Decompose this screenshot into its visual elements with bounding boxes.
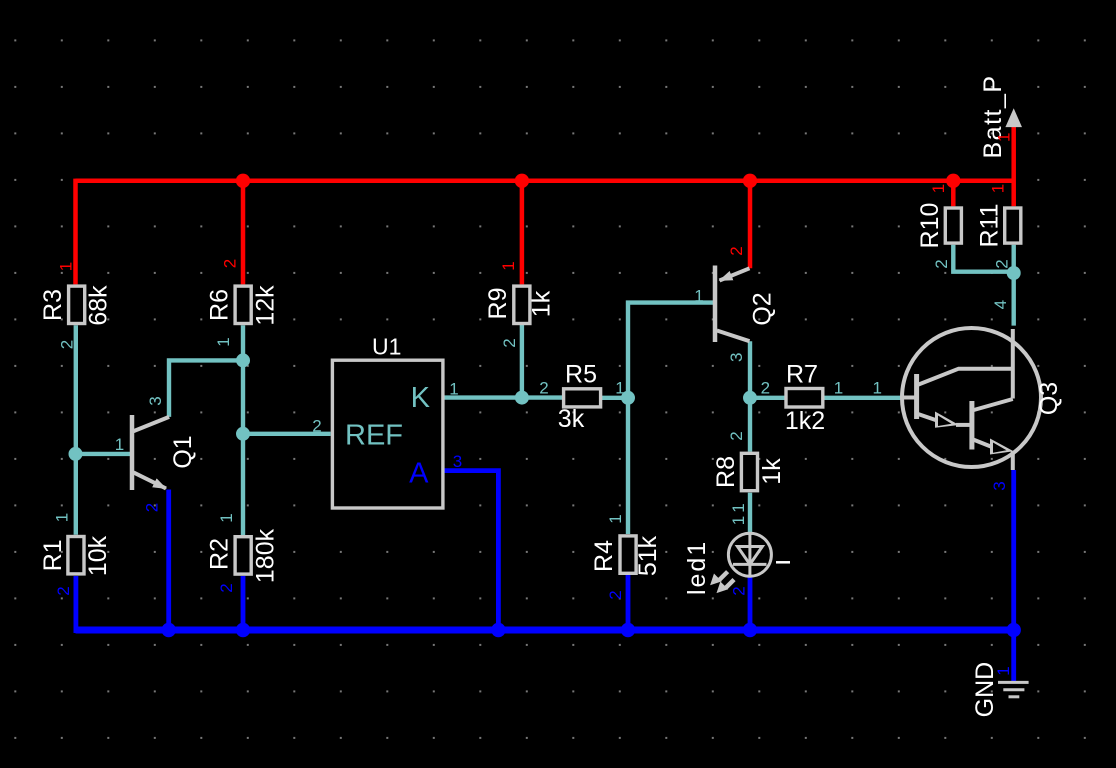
resistor R9 bbox=[484, 261, 556, 347]
op-amp U1 (REF shunt regulator) bbox=[312, 334, 462, 508]
resistor R8 bbox=[712, 431, 786, 512]
node teal R6-Q1 collector bbox=[236, 353, 250, 367]
svg-text:3: 3 bbox=[727, 353, 746, 362]
svg-text:R4: R4 bbox=[590, 540, 618, 572]
svg-text:2: 2 bbox=[727, 246, 746, 255]
svg-text:1: 1 bbox=[606, 514, 625, 523]
resistor R5 bbox=[539, 361, 624, 433]
svg-text:1: 1 bbox=[872, 379, 881, 398]
wire teal R8 to led1 bbox=[748, 493, 752, 535]
ground GND bbox=[971, 662, 1029, 718]
svg-text:Q3: Q3 bbox=[1035, 382, 1063, 415]
svg-text:1: 1 bbox=[694, 287, 703, 306]
transistor Q2 bbox=[694, 246, 776, 362]
node blue GND bbox=[1007, 623, 1021, 637]
svg-text:Q1: Q1 bbox=[169, 435, 197, 468]
wire teal R9 down bbox=[520, 324, 524, 398]
svg-text:1: 1 bbox=[217, 513, 236, 522]
resistor R10 bbox=[916, 184, 961, 269]
svg-text:2: 2 bbox=[993, 259, 1012, 268]
svg-text:2: 2 bbox=[220, 259, 239, 268]
wire teal K pin to R5 bbox=[444, 395, 563, 399]
svg-text:12k: 12k bbox=[251, 285, 279, 326]
svg-text:A: A bbox=[409, 457, 429, 489]
svg-text:Q2: Q2 bbox=[749, 292, 777, 325]
svg-text:1: 1 bbox=[834, 379, 843, 398]
svg-text:R8: R8 bbox=[712, 456, 740, 488]
svg-text:1k: 1k bbox=[528, 290, 556, 317]
svg-text:1: 1 bbox=[929, 184, 948, 193]
node red rail-R9 bbox=[515, 174, 529, 188]
wire teal R7 to Q3 base bbox=[824, 396, 903, 400]
node red rail-R10 bbox=[946, 174, 960, 188]
wire blue R1 bottom bbox=[74, 576, 79, 633]
svg-text:4: 4 bbox=[991, 300, 1010, 309]
svg-text:2: 2 bbox=[727, 431, 746, 440]
resistor R11 bbox=[975, 184, 1021, 269]
svg-text:1: 1 bbox=[115, 435, 124, 454]
svg-text:R2: R2 bbox=[205, 538, 233, 570]
wire teal R11 bottom to Q3 collector bbox=[1012, 245, 1016, 326]
svg-text:3: 3 bbox=[990, 481, 1009, 490]
resistor R6 bbox=[205, 259, 279, 347]
wire teal node to R7 bbox=[750, 396, 785, 400]
svg-text:K: K bbox=[411, 382, 431, 414]
svg-text:1: 1 bbox=[615, 379, 624, 398]
svg-text:1: 1 bbox=[57, 262, 76, 271]
wire blue A pin bbox=[444, 471, 498, 630]
wire red rail to R10 bbox=[951, 181, 956, 207]
wire blue Q1 emitter bbox=[166, 490, 171, 631]
wire teal Q2 base riser bbox=[628, 303, 713, 534]
svg-text:R3: R3 bbox=[39, 289, 67, 321]
wire red power rail bbox=[76, 179, 1014, 184]
resistor R2 bbox=[205, 513, 279, 592]
svg-text:1: 1 bbox=[449, 380, 458, 399]
wire red rail to R6 bbox=[241, 181, 246, 285]
wire teal node to REF pin 2 bbox=[243, 432, 331, 436]
svg-text:R7: R7 bbox=[786, 361, 818, 389]
resistor R3 bbox=[39, 262, 113, 349]
node red rail-R6 bbox=[236, 174, 250, 188]
svg-text:2: 2 bbox=[539, 379, 548, 398]
node teal R2-REF bbox=[236, 427, 250, 441]
node blue R2 bbox=[236, 623, 250, 637]
wire teal Q1 base bbox=[76, 452, 131, 456]
svg-text:1: 1 bbox=[988, 184, 1007, 193]
svg-text:2: 2 bbox=[142, 503, 161, 512]
svg-text:1: 1 bbox=[994, 666, 1013, 675]
wire blue R2 bottom bbox=[241, 576, 246, 630]
svg-text:1: 1 bbox=[729, 503, 748, 512]
svg-text:Batt_P: Batt_P bbox=[979, 74, 1007, 158]
wire red rail to R9 bbox=[520, 181, 525, 285]
node blue Q1 bbox=[162, 623, 176, 637]
svg-text:1k2: 1k2 bbox=[785, 407, 825, 435]
svg-text:R10: R10 bbox=[916, 203, 944, 249]
svg-text:U1: U1 bbox=[372, 334, 401, 360]
wire teal R6 column down to R2 bbox=[241, 325, 245, 535]
wire teal Q2 collector to R8 bbox=[748, 341, 752, 451]
svg-text:1: 1 bbox=[214, 337, 233, 346]
svg-text:R11: R11 bbox=[975, 203, 1003, 247]
svg-text:3: 3 bbox=[453, 452, 462, 471]
svg-text:2: 2 bbox=[312, 417, 321, 436]
svg-text:1: 1 bbox=[729, 516, 748, 525]
wire teal left column R3-R1 bbox=[74, 325, 78, 535]
svg-text:2: 2 bbox=[57, 340, 76, 349]
wire blue Q3 emitter to GND bbox=[1011, 470, 1016, 682]
svg-text:2: 2 bbox=[500, 338, 519, 347]
svg-text:1k: 1k bbox=[758, 458, 786, 485]
svg-text:2: 2 bbox=[54, 586, 73, 595]
svg-text:10k: 10k bbox=[84, 535, 112, 576]
wire blue ground rail bbox=[76, 627, 1014, 634]
node blue led1 bbox=[743, 623, 757, 637]
node teal R5-R4-Q2base bbox=[621, 391, 635, 405]
LED led1 bbox=[683, 516, 790, 597]
node red rail-Q2 bbox=[743, 174, 757, 188]
resistor R7 bbox=[761, 361, 844, 435]
svg-text:51k: 51k bbox=[634, 535, 662, 576]
wire blue R4 bottom bbox=[626, 575, 631, 630]
wire red rail to Q2 emitter bbox=[748, 181, 753, 268]
port Batt_P bbox=[979, 74, 1022, 158]
wire blue led1 bottom bbox=[748, 576, 753, 630]
wire red rail to R3 bbox=[73, 179, 78, 285]
node teal Q2-R7-R8 bbox=[743, 391, 757, 405]
svg-text:2: 2 bbox=[729, 586, 748, 595]
svg-text:R1: R1 bbox=[39, 539, 67, 571]
node teal R3-R1-Q1 bbox=[69, 447, 83, 461]
svg-text:2: 2 bbox=[606, 590, 625, 599]
svg-text:68k: 68k bbox=[85, 285, 113, 326]
svg-text:2: 2 bbox=[217, 583, 236, 592]
svg-text:3k: 3k bbox=[558, 405, 585, 433]
svg-text:2: 2 bbox=[932, 259, 951, 268]
svg-text:2: 2 bbox=[761, 379, 770, 398]
svg-text:1: 1 bbox=[52, 513, 71, 522]
node teal K-R9 bbox=[515, 391, 529, 405]
node blue R4 bbox=[621, 623, 635, 637]
resistor R1 bbox=[39, 513, 112, 596]
svg-text:R5: R5 bbox=[565, 361, 597, 389]
transistor Q3 (darlington) bbox=[872, 300, 1063, 491]
svg-text:3: 3 bbox=[146, 396, 165, 405]
node blue A bbox=[491, 623, 505, 637]
wire red Batt_P to R11 bbox=[1011, 124, 1016, 206]
svg-text:R6: R6 bbox=[205, 289, 233, 321]
resistor R4 bbox=[590, 514, 662, 599]
svg-text:1: 1 bbox=[994, 133, 1013, 142]
wire teal Q1 collector to node bbox=[169, 360, 243, 417]
wire teal R10 bottom bbox=[953, 245, 1013, 272]
node teal R10-R11 bbox=[1007, 266, 1021, 280]
transistor Q1 bbox=[115, 396, 197, 512]
svg-text:REF: REF bbox=[345, 420, 403, 452]
svg-text:180k: 180k bbox=[251, 528, 279, 583]
svg-text:1: 1 bbox=[499, 261, 518, 270]
svg-text:R9: R9 bbox=[484, 288, 512, 320]
svg-text:led1: led1 bbox=[683, 540, 711, 595]
wire teal R5 to node bbox=[601, 396, 628, 400]
